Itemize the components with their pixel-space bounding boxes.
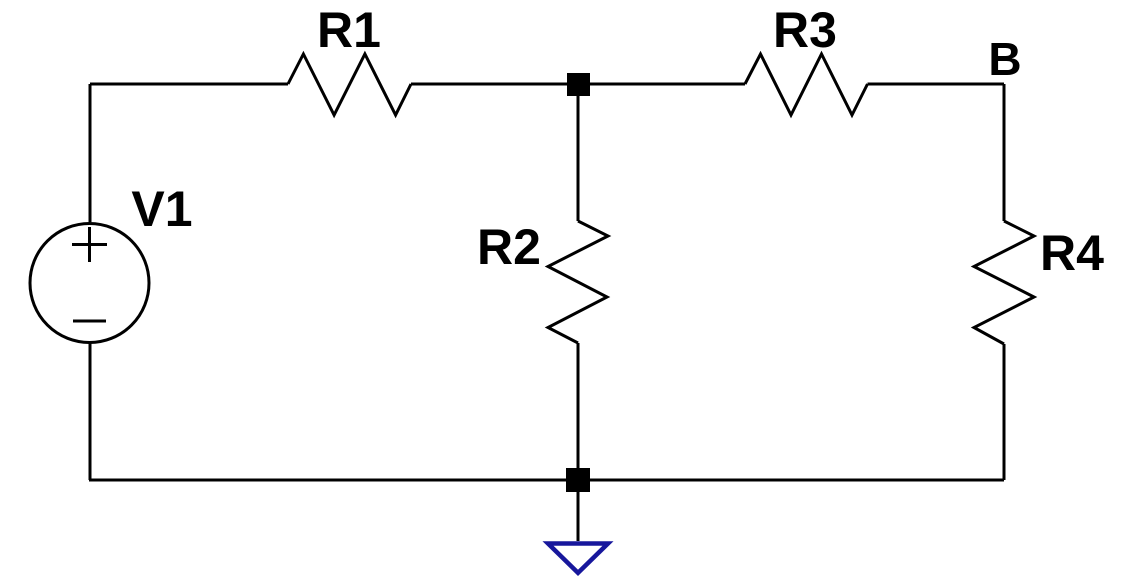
wire top-left horizontal (V1 top to R1) [90,83,288,86]
wire R1 to node A [411,83,567,86]
svg-text:V1: V1 [131,181,192,237]
svg-text:R4: R4 [1040,225,1104,281]
svg-text:B: B [988,33,1021,85]
resistor R4 [974,221,1034,344]
wire node A down to R2 [577,96,580,221]
voltage source V1 circle [30,224,149,343]
wire node B down to R4 [1003,84,1006,221]
wire R3 to node B corner [868,83,1005,86]
V1 plus sign [72,227,107,262]
svg-text:R3: R3 [773,2,837,58]
wire R2 to bottom node [577,343,580,468]
ground symbol [548,544,608,573]
svg-text:R1: R1 [317,2,381,58]
resistor R3 [745,54,868,115]
resistor R1 [288,54,411,115]
wire R4 to bottom-right corner [1003,344,1006,480]
wire V1 bottom to bottom-left corner [89,343,92,480]
wire bottom horizontal right [590,479,1004,482]
ground node junction square [566,468,590,492]
wire left vertical (top corner to V1) [89,84,92,222]
svg-text:R2: R2 [477,219,541,275]
wire ground node to ground symbol [577,492,580,541]
node A junction square [567,73,590,96]
wire node A to R3 [590,83,745,86]
wire bottom horizontal left (to bottom node) [89,479,566,482]
V1 minus sign [73,320,106,323]
resistor R2 [548,221,608,343]
